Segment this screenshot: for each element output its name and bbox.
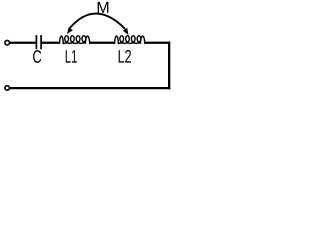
arrowhead left bbox=[67, 27, 73, 34]
label M bbox=[98, 2, 109, 13]
wire: capacitor to inductor L1 bbox=[42, 42, 60, 44]
wire: terminal to capacitor bbox=[9, 42, 35, 44]
wire: L1 to L2 bbox=[89, 42, 115, 44]
wire: bottom rail bbox=[9, 87, 170, 89]
wire: right rail vertical bbox=[168, 42, 170, 89]
capacitor C left plate bbox=[35, 35, 37, 49]
arrowhead right bbox=[123, 28, 129, 35]
label L2 bbox=[119, 50, 131, 63]
inductor L1 coil bbox=[60, 36, 90, 44]
label L1 bbox=[66, 50, 77, 63]
terminal top-left bbox=[5, 40, 10, 45]
terminal bottom-left bbox=[5, 86, 10, 91]
mutual coupling arc M bbox=[70, 14, 125, 29]
label C bbox=[33, 50, 41, 63]
capacitor C right plate bbox=[40, 35, 42, 49]
inductor L2 coil bbox=[115, 36, 145, 44]
wire: L2 to right corner bbox=[144, 42, 170, 44]
